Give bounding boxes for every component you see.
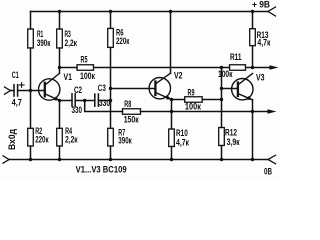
svg-text:330: 330: [72, 105, 83, 115]
junction bottom rail R7: [109, 158, 112, 161]
capacitor C2 plate left: [71, 94, 73, 106]
junction R9 to V3 base column: [220, 98, 223, 101]
svg-text:2,2к: 2,2к: [65, 38, 78, 48]
wire V2 emitter to R9: [172, 99, 185, 101]
wire C3 to node B: [98, 100, 110, 102]
wire V2 base node to C3 node: [110, 89, 112, 101]
svg-text:100к: 100к: [80, 71, 95, 81]
resistor R5: [77, 65, 94, 71]
svg-text:V3: V3: [256, 72, 265, 82]
wire base node down to R2: [30, 91, 32, 129]
svg-text:390к: 390к: [118, 136, 132, 146]
wire V3 emitter column down to 0V: [252, 100, 254, 160]
junction top rail R6: [109, 10, 112, 13]
wire V3 base: [222, 88, 238, 90]
svg-text:R8: R8: [124, 99, 131, 109]
svg-text:Вх0д: Вх0д: [7, 129, 17, 150]
resistor R3: [57, 29, 63, 48]
wire input to C1: [11, 90, 15, 92]
svg-text:+ 9В: + 9В: [252, 0, 270, 10]
resistor R7: [108, 128, 114, 146]
wire R12 bottom: [221, 146, 223, 160]
wire C2 to node A: [75, 100, 95, 102]
wire node A down to R8: [85, 101, 123, 112]
junction top rail R13: [251, 10, 254, 13]
capacitor C1 plate left: [13, 85, 15, 96]
svg-text:220к: 220к: [116, 36, 130, 46]
svg-text:4,7к: 4,7к: [257, 38, 270, 48]
svg-text:V1...V3 BC109: V1...V3 BC109: [76, 164, 127, 174]
arrow output 1: [270, 65, 279, 69]
transistor V1: [39, 79, 60, 100]
svg-text:4,7: 4,7: [12, 97, 22, 107]
junction bottom rail V3 emitter: [251, 158, 254, 161]
junction bottom rail R10: [170, 158, 173, 161]
wire R3 bottom to collector node: [59, 48, 61, 68]
resistor R8: [123, 109, 141, 115]
capacitor C3 plate right: [97, 94, 99, 106]
terminal +9V chevron: [268, 7, 276, 16]
resistor R9: [185, 97, 203, 103]
junction V1 base: [29, 89, 32, 92]
junction bottom rail R12: [220, 158, 223, 161]
transistor V2: [149, 78, 170, 99]
junction node A C2-C3: [83, 99, 86, 102]
svg-text:330: 330: [99, 98, 110, 108]
svg-text:C3: C3: [98, 83, 106, 93]
svg-text:V2: V2: [174, 71, 183, 81]
wire V1 emitter node to R4: [59, 101, 61, 129]
resistor R1: [28, 29, 34, 48]
wire C3 node down to R7: [110, 101, 112, 129]
junction bottom rail R4: [58, 158, 61, 161]
svg-text:R5: R5: [81, 54, 88, 64]
svg-text:R9: R9: [188, 87, 195, 97]
svg-text:390к: 390к: [37, 38, 51, 48]
resistor R6: [108, 28, 114, 47]
wire collector node to R5: [60, 67, 78, 69]
wire C1 to V1 base: [18, 90, 46, 92]
svg-text:C1: C1: [12, 70, 19, 80]
wire bottom 0V rail: [9, 159, 268, 161]
wire R3 top: [59, 12, 61, 30]
junction V3 base corner: [220, 87, 223, 90]
junction V1 collector R5: [58, 66, 61, 69]
wire R13 top: [252, 12, 254, 29]
junction output node 1: [251, 66, 254, 69]
terminal input upper chevron: [5, 87, 11, 94]
wire R1 bottom to V1 base node: [30, 48, 32, 91]
wire R4 bottom: [59, 146, 61, 160]
wire V3 base column: [221, 68, 223, 128]
wire V1 collector vertical: [59, 68, 61, 74]
svg-text:150к: 150к: [124, 115, 139, 125]
junction V2 base tap: [109, 87, 112, 90]
resistor R11: [230, 65, 246, 71]
wire R7 bottom: [110, 146, 112, 160]
resistor R4: [57, 128, 63, 146]
terminal input lower chevron: [3, 156, 9, 163]
junction top rail V2 collector: [169, 10, 172, 13]
polarity plus of C1 vertical: [21, 83, 23, 88]
svg-text:C2: C2: [74, 85, 82, 95]
wire R9 to V3 base column: [202, 99, 221, 101]
wire R8 to emitter column and output 2: [141, 111, 268, 113]
svg-text:3,9к: 3,9к: [227, 137, 240, 147]
capacitor C1 plate right: [17, 85, 19, 96]
wire output 1: [253, 67, 271, 69]
junction R5-R11 V3 base tap: [220, 66, 223, 69]
resistor R12: [219, 128, 225, 146]
svg-text:4,7к: 4,7к: [176, 137, 189, 147]
svg-text:100к: 100к: [218, 69, 233, 79]
junction output node 2: [251, 110, 254, 113]
wire R2 bottom: [30, 146, 32, 160]
junction V1 emitter: [58, 99, 61, 102]
svg-text:0В: 0В: [264, 166, 272, 176]
wire R5 to R11: [94, 67, 230, 69]
polarity plus of C1 horizontal: [19, 84, 24, 86]
resistor R10: [169, 129, 175, 147]
terminal 0V chevron: [268, 155, 276, 164]
wire V2 collector to rail: [170, 12, 172, 74]
resistor R2: [28, 128, 34, 146]
junction node B C3 R6 R7: [109, 99, 112, 102]
arrow output 2: [268, 109, 277, 113]
wire node B to V2 base: [111, 88, 156, 90]
wire R6 top: [110, 12, 112, 29]
svg-text:100к: 100к: [185, 102, 201, 112]
wire R10 bottom: [171, 147, 173, 160]
wire R13 bottom to output node: [252, 46, 254, 68]
resistor R13: [250, 29, 256, 46]
wire top supply rail +9V: [31, 11, 269, 13]
svg-text:R11: R11: [230, 52, 242, 62]
junction V2 emitter: [170, 98, 173, 101]
wire R6 bottom to V2 base node: [110, 47, 112, 88]
junction top rail R3: [58, 10, 61, 13]
junction R8 at emitter column: [170, 110, 173, 113]
wire V2 emitter node down to R10: [171, 100, 173, 130]
svg-text:R12: R12: [225, 127, 237, 137]
junction bottom rail R2: [29, 158, 32, 161]
capacitor C2 plate right: [74, 94, 76, 106]
capacitor C3 plate left: [94, 94, 96, 106]
wire R1 top: [30, 12, 32, 30]
svg-text:V1: V1: [64, 72, 73, 82]
wire V1 emitter node to C2: [60, 100, 73, 102]
transistor V3: [232, 79, 253, 100]
svg-text:2,2к: 2,2к: [65, 135, 78, 145]
wire R11 to output node: [246, 67, 253, 69]
svg-text:220к: 220к: [35, 135, 49, 145]
